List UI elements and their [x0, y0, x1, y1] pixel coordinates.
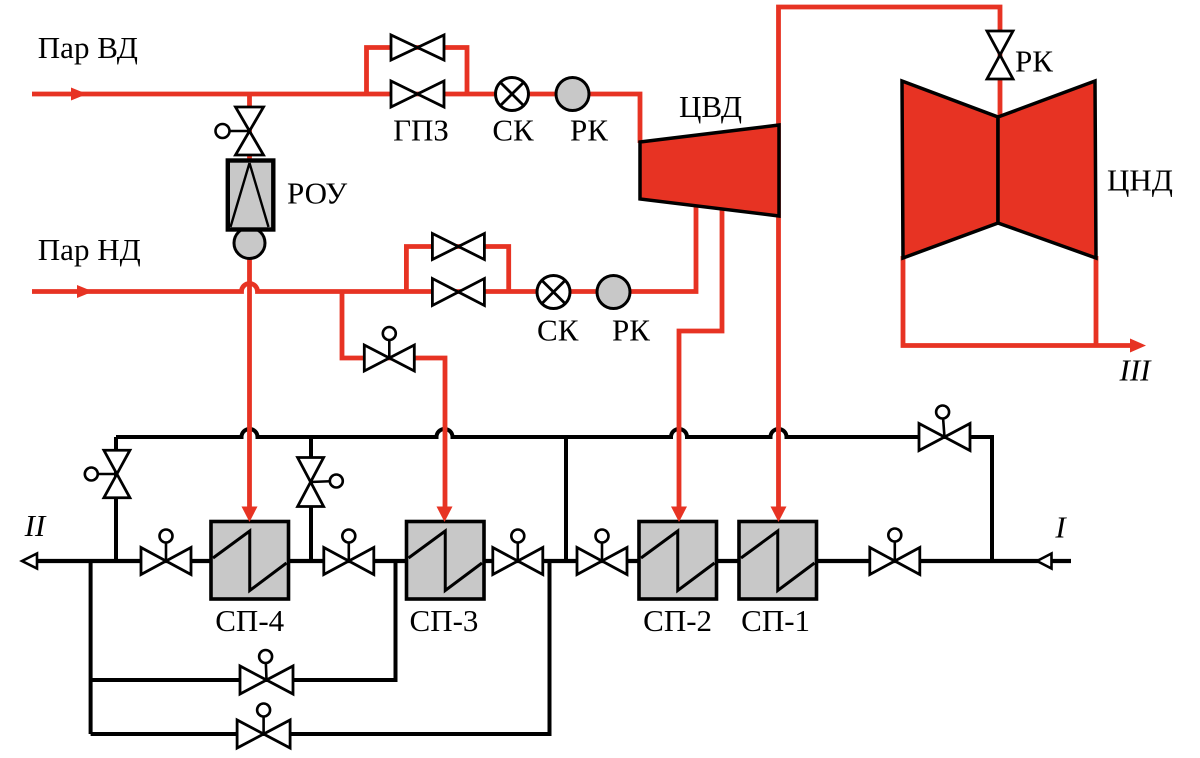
wire GPZ bypass loop — [367, 48, 468, 95]
wire return water main line (node II to node I) — [37, 559, 1071, 563]
arrow steam into SP-3 — [437, 507, 453, 523]
svg-text:ГПЗ: ГПЗ — [393, 112, 449, 147]
arrow node I inflow — [1037, 554, 1052, 569]
valve ND main — [432, 279, 484, 306]
stop valve SK on HP line — [496, 78, 529, 111]
heater SP-4 — [211, 522, 289, 600]
label SK LP — [537, 312, 579, 347]
valve on bypass line 1 — [240, 650, 293, 694]
wire extraction branch to SP-3 — [342, 292, 445, 508]
wire riser between SP-4 and SP-3 — [309, 437, 313, 561]
valve on water line left of SP-3 — [324, 530, 374, 575]
valve on riser between SP-4 and SP-3 — [298, 458, 343, 507]
label II — [24, 508, 47, 543]
valve ROU inlet — [216, 107, 264, 155]
wire heating-steam collector top line with hops — [116, 429, 992, 561]
svg-text:СП-4: СП-4 — [215, 603, 284, 638]
wire riser left drain — [114, 437, 118, 561]
wire CND exhaust left — [903, 256, 1131, 346]
label SP-4 — [215, 603, 284, 638]
svg-text:РК: РК — [1015, 44, 1053, 79]
svg-text:СК: СК — [492, 112, 534, 147]
svg-text:РК: РК — [570, 112, 608, 147]
label SP-3 — [410, 603, 479, 638]
valve GPZ bypass — [391, 35, 444, 60]
arrow flow Par ND — [77, 285, 93, 298]
control valve RK before CND — [987, 31, 1013, 79]
label Par VD — [38, 30, 138, 65]
valve on top collector line — [919, 406, 970, 451]
label CND — [1107, 162, 1173, 197]
turbine cylinder CND left half — [902, 81, 998, 258]
arrow node II outflow — [22, 554, 37, 569]
valve GPZ main — [391, 81, 444, 107]
label GPZ — [393, 112, 449, 147]
valve on left riser — [85, 450, 130, 498]
label SP-2 — [643, 603, 712, 638]
turbine cylinder CVD — [640, 125, 779, 216]
label Par ND — [38, 232, 141, 267]
valve on water line right of SP-1 — [870, 529, 920, 575]
label RK HP — [570, 112, 608, 147]
svg-text:ЦНД: ЦНД — [1107, 162, 1173, 197]
svg-text:РОУ: РОУ — [287, 175, 347, 210]
label CVD — [679, 89, 742, 124]
svg-text:СК: СК — [537, 312, 579, 347]
wire steam HP main (Par VD) — [32, 94, 640, 143]
label III — [1119, 353, 1153, 388]
label RK LP — [612, 312, 650, 347]
label SK HP — [492, 112, 534, 147]
valve on water line right of SP-3 — [493, 530, 543, 575]
valve ND bypass — [432, 234, 484, 260]
turbine cylinder CND right half — [998, 81, 1096, 258]
ROU reducing-cooling unit — [228, 161, 273, 259]
arrow steam into SP-4 — [242, 507, 258, 523]
svg-text:Пар ВД: Пар ВД — [38, 30, 138, 65]
label RK CND — [1015, 44, 1053, 79]
label I — [1054, 510, 1067, 545]
wire CND exhaust right — [1094, 256, 1099, 346]
arrow steam into SP-1 — [771, 507, 787, 523]
svg-text:II: II — [24, 508, 47, 543]
svg-text:СП-2: СП-2 — [643, 603, 712, 638]
heater SP-2 — [639, 522, 717, 600]
label ROU — [287, 175, 347, 210]
wire extraction branch to SP-2 — [679, 209, 722, 507]
wire bypass down-leg at left — [89, 561, 93, 734]
wire riser between SP-3 and SP-2 — [564, 437, 568, 561]
valve on bypass line 2 — [237, 704, 290, 749]
valve on SP-3 extraction branch — [364, 327, 414, 371]
wire steam LP main (Par ND) with hop — [32, 205, 696, 292]
arrow flow III — [1130, 339, 1146, 353]
wire ROU branch down to SP-4 — [247, 94, 252, 507]
wire ND bypass loop — [406, 247, 508, 292]
wire crossover CVD to CND and down to SP-1 — [779, 7, 1001, 507]
valve on water line left of SP-2 — [577, 530, 627, 575]
svg-text:ЦВД: ЦВД — [679, 89, 742, 124]
control valve RK on HP line — [556, 78, 589, 111]
svg-text:СП-3: СП-3 — [410, 603, 479, 638]
arrow flow Par VD — [71, 88, 87, 101]
heater SP-1 — [739, 522, 817, 600]
control valve RK on LP line — [597, 276, 630, 309]
svg-text:III: III — [1119, 353, 1153, 388]
svg-text:СП-1: СП-1 — [741, 603, 810, 638]
wire bypass line 1 — [91, 561, 396, 680]
svg-text:Пар НД: Пар НД — [38, 232, 141, 267]
arrow steam into SP-2 — [671, 507, 687, 523]
heater SP-3 — [407, 522, 485, 600]
valve on water line left of SP-4 — [141, 530, 191, 575]
wire bypass line 2 — [91, 561, 550, 734]
svg-text:РК: РК — [612, 312, 650, 347]
svg-text:I: I — [1054, 510, 1067, 545]
stop valve SK on LP line — [537, 276, 570, 309]
label SP-1 — [741, 603, 810, 638]
